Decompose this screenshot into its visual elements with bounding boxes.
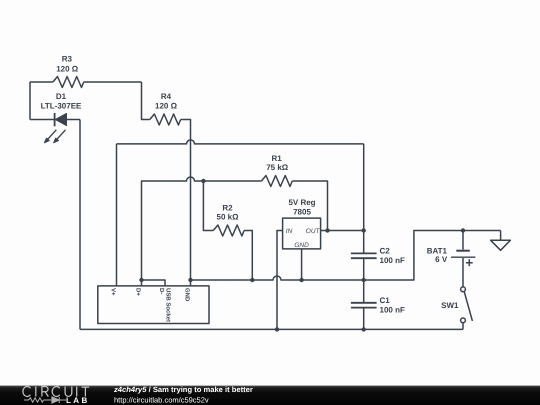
node C1 bottom junction	[362, 327, 366, 331]
value USB Socket	[164, 288, 171, 322]
svg-text:BAT1: BAT1	[427, 246, 448, 255]
svg-text:LTL-307EE: LTL-307EE	[41, 101, 82, 110]
capacitor C1	[351, 303, 377, 308]
wire left vertical from R3 to D1	[29, 82, 31, 120]
value 100 nF of C1	[380, 305, 405, 314]
wire USB D- jog to D+	[142, 280, 166, 286]
voltage regulator U1 7805 box	[283, 218, 321, 249]
pin label IN	[286, 228, 293, 235]
resistor R1	[261, 176, 292, 187]
node 7805 GND junction	[299, 278, 303, 282]
label D1	[56, 92, 67, 101]
logo doodle resistor and diode	[24, 397, 66, 403]
top rail from USB V+ to C2 column with hop over R4 wire	[117, 140, 364, 144]
svg-text:C2: C2	[380, 246, 391, 255]
node OUT junction	[325, 228, 329, 232]
svg-text:50 kΩ: 50 kΩ	[217, 213, 240, 222]
capacitor C2 column vertical	[363, 144, 365, 330]
D1 light emission arrows	[44, 130, 65, 143]
wire from 7805 IN down to bottom rail	[277, 231, 283, 330]
wire from R4 down to USB GND pin (crossed by two hops)	[181, 120, 191, 286]
CircuitLab logo wordmark CIRCUIT drawn as paths	[23, 386, 89, 396]
pin label GND	[294, 242, 309, 249]
node R2 bottom junction	[250, 278, 254, 282]
wire from D1 anode down to bottom rail	[79, 120, 81, 330]
node GND pin / R4 junction	[188, 278, 192, 282]
svg-text:GND: GND	[294, 242, 309, 249]
svg-text:GND: GND	[184, 288, 191, 302]
svg-text:100 nF: 100 nF	[380, 305, 405, 314]
wire from 7805 OUT to C2 top node	[321, 230, 364, 232]
svg-text:7805: 7805	[293, 207, 311, 216]
label R1	[271, 154, 282, 163]
value LTL-307EE of D1	[41, 101, 82, 110]
resistor R2	[213, 225, 244, 236]
svg-text:120 Ω: 120 Ω	[155, 102, 178, 111]
value 75 kohm of R1	[266, 163, 289, 172]
pin label V+	[110, 288, 117, 296]
value 120 ohm of R4	[155, 102, 178, 111]
label SW1	[441, 301, 459, 310]
node A R1/R2/D+ junction	[201, 179, 205, 183]
switch SW1	[461, 287, 473, 330]
svg-text:LAB: LAB	[66, 396, 90, 405]
svg-text:OUT: OUT	[306, 228, 321, 235]
resistor R3	[30, 77, 142, 88]
capacitor C2	[351, 253, 377, 258]
node C2/C1 mid junction	[362, 278, 366, 282]
label BAT1	[427, 246, 448, 255]
svg-text:5V Reg: 5V Reg	[288, 198, 315, 207]
value 6 V of BAT1	[435, 255, 448, 264]
svg-text:R2: R2	[222, 203, 233, 212]
label R3	[62, 55, 73, 64]
value 7805	[293, 207, 311, 216]
label C1	[380, 296, 391, 305]
wire from R2 right down to ground line	[244, 231, 252, 281]
pin label GND	[184, 288, 191, 302]
wire USB V+ pin vertical	[116, 144, 118, 286]
pin label D-	[158, 288, 165, 294]
svg-text:SW1: SW1	[441, 301, 459, 310]
ground symbol	[491, 231, 511, 251]
wire from node A down to R2	[203, 181, 213, 231]
svg-text:USB Socket: USB Socket	[164, 288, 171, 322]
USB socket J1 box	[98, 286, 209, 324]
value 120 ohm of R3	[56, 65, 79, 74]
svg-text:R1: R1	[271, 154, 282, 163]
svg-text:D1: D1	[56, 92, 67, 101]
svg-text:z4ch4ry5 / Sam trying to make: z4ch4ry5 / Sam trying to make it better	[113, 385, 253, 394]
svg-text:V+: V+	[110, 288, 117, 296]
svg-text:R3: R3	[62, 55, 73, 64]
ground net horizontal line with hop over IN wire, to battery top	[191, 231, 501, 281]
node D+/D- junction	[139, 278, 143, 282]
bottom ground rail	[80, 328, 463, 330]
pin label D+	[135, 288, 142, 296]
resistor R4	[150, 114, 181, 125]
wire from USB D+ up and right to R1 (hop over R4 wire)	[142, 177, 262, 286]
svg-text:120 Ω: 120 Ω	[56, 65, 79, 74]
svg-text:IN: IN	[286, 228, 293, 235]
pin label OUT	[306, 228, 321, 235]
label C2	[380, 246, 391, 255]
wire from R3 down to R4	[142, 82, 150, 120]
svg-text:C1: C1	[380, 296, 391, 305]
value 100 nF of C2	[380, 256, 405, 265]
battery BAT1	[451, 231, 475, 287]
junction dots	[139, 179, 465, 332]
label 5V Reg	[288, 198, 315, 207]
svg-text:6 V: 6 V	[435, 255, 448, 264]
value 50 kohm of R2	[217, 213, 240, 222]
label R4	[161, 92, 172, 101]
svg-text:D+: D+	[135, 288, 142, 296]
label R2	[222, 203, 233, 212]
node battery top junction	[461, 228, 465, 232]
svg-text:100 nF: 100 nF	[380, 256, 405, 265]
node IN / bottom rail junction	[275, 327, 279, 331]
wire from 7805 GND pin down to ground line	[301, 249, 303, 280]
node C2 top junction	[362, 228, 366, 232]
svg-text:D-: D-	[158, 288, 165, 294]
wire from R1 right down to OUT node	[292, 181, 327, 231]
svg-text:75 kΩ: 75 kΩ	[266, 163, 289, 172]
LED D1	[30, 113, 80, 126]
svg-text:http://circuitlab.com/c59c52v: http://circuitlab.com/c59c52v	[114, 395, 209, 404]
svg-text:R4: R4	[161, 92, 172, 101]
battery plus sign	[466, 259, 473, 266]
